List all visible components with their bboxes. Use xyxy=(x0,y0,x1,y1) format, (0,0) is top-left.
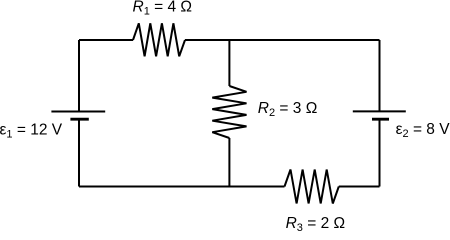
resistor R1 xyxy=(133,23,185,56)
battery E2 short plate (-) xyxy=(372,118,389,121)
svg-text:R2 = 3 Ω: R2 = 3 Ω xyxy=(258,100,318,119)
wire bottom-right segment xyxy=(339,186,380,188)
wire top-right segment xyxy=(185,39,380,41)
wire bottom-left segment xyxy=(79,186,285,188)
wire right vertical lower xyxy=(379,119,381,186)
battery E1 long plate (+) xyxy=(51,111,105,113)
svg-text:R3 = 2 Ω: R3 = 2 Ω xyxy=(286,215,346,232)
wire right vertical upper xyxy=(379,40,381,111)
battery E2 long plate (+) xyxy=(353,110,406,112)
svg-text:R1 = 4 Ω: R1 = 4 Ω xyxy=(133,0,193,17)
resistor R3 xyxy=(285,170,339,204)
node top-middle junction xyxy=(228,40,230,86)
battery E1 (eps1 = 12 V source) xyxy=(51,112,105,120)
wire left vertical upper xyxy=(78,40,80,112)
wire top-left segment xyxy=(79,39,133,41)
battery E2 (eps2 = 8 V source) xyxy=(353,111,406,119)
battery E1 short plate (-) xyxy=(70,118,88,121)
wire middle-bottom segment xyxy=(228,138,230,187)
wire left vertical lower xyxy=(78,119,80,186)
resistor R2 xyxy=(212,86,246,138)
